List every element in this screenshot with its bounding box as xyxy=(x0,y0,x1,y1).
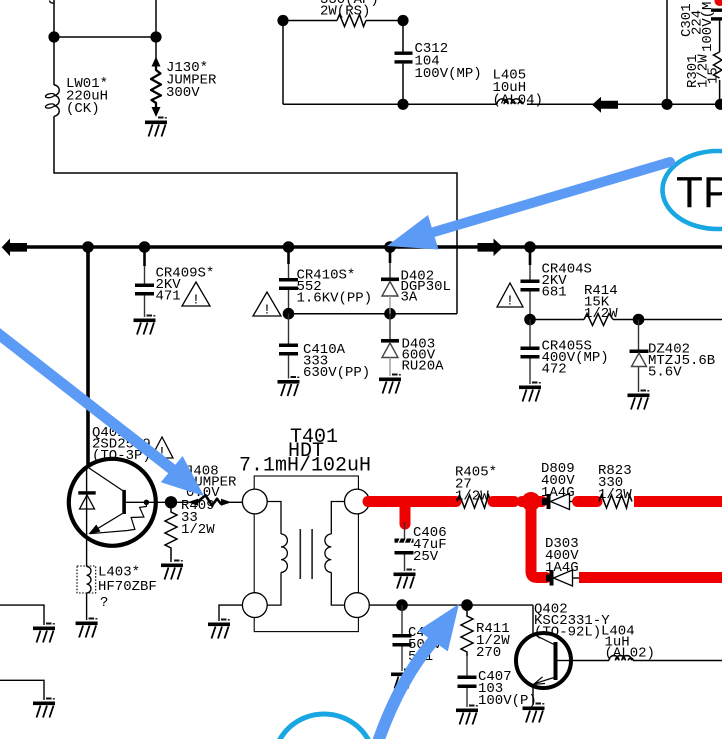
svg-text:!: ! xyxy=(192,293,200,309)
svg-text:RU20A: RU20A xyxy=(402,359,445,375)
svg-text:3A: 3A xyxy=(401,290,418,306)
ground under T401 BL xyxy=(208,619,230,639)
resistor R414 xyxy=(584,314,613,326)
svg-text:100V(MP): 100V(MP) xyxy=(415,66,482,82)
node red top right xyxy=(715,0,722,6)
transformer T401 primary winding xyxy=(267,502,281,535)
jumper J130 xyxy=(152,57,161,67)
node at 156,37 xyxy=(150,31,161,42)
label C312 xyxy=(415,41,482,82)
node 530,319.5 xyxy=(524,314,536,326)
node 402,605.1 xyxy=(396,599,408,611)
label L404 xyxy=(601,624,655,662)
capacitor CR410S xyxy=(287,247,290,264)
capacitor CR409S xyxy=(143,247,146,266)
ground under C405 xyxy=(391,669,413,689)
annotation arrow 3 (curved, to node 467,605) xyxy=(379,604,459,739)
capacitor CR405S xyxy=(529,320,531,347)
red stub to C406 xyxy=(400,502,411,525)
resistor R301 (clipped) xyxy=(714,52,722,78)
svg-text:25V: 25V xyxy=(413,549,439,565)
wire y=313.7 xyxy=(289,313,458,315)
label R823 xyxy=(598,463,632,503)
svg-text:(AL04): (AL04) xyxy=(493,93,543,109)
wire left stub 1 xyxy=(0,605,44,625)
svg-text:471: 471 xyxy=(156,289,181,305)
svg-text:(CK): (CK) xyxy=(66,101,100,117)
svg-text:1/2W: 1/2W xyxy=(584,306,618,322)
label CR410S xyxy=(297,268,373,307)
label CR404S xyxy=(542,262,592,301)
svg-text:681: 681 xyxy=(542,285,567,301)
transformer pin TL xyxy=(242,489,267,514)
label LW01 xyxy=(66,76,108,117)
svg-text:2W(RS): 2W(RS) xyxy=(320,4,370,20)
svg-text:100V(P): 100V(P) xyxy=(478,693,537,709)
ground under L403 xyxy=(76,618,98,638)
label C406 xyxy=(413,525,447,565)
transformer T401 core xyxy=(299,529,301,579)
label D403 xyxy=(402,337,445,375)
label D402 xyxy=(401,269,451,306)
wire right edge xyxy=(719,21,721,105)
node at 283,20.5 xyxy=(277,15,288,26)
red net lower segment xyxy=(579,572,722,583)
flow arrow right on bus xyxy=(478,239,504,257)
node at 54,37 xyxy=(48,31,59,42)
svg-text:(AL02): (AL02) xyxy=(605,646,655,662)
label R301 rotated xyxy=(685,54,722,88)
svg-text:270: 270 xyxy=(476,645,501,661)
diode D809 xyxy=(542,498,549,505)
label J130 xyxy=(166,60,217,101)
ground under R409 xyxy=(161,560,183,580)
inductor LW01 xyxy=(54,85,59,116)
annotation oval TP top right xyxy=(663,151,722,229)
wire L404 to edge xyxy=(633,660,722,662)
ground under CR405S xyxy=(519,382,541,402)
svg-text:7.1mH/102uH: 7.1mH/102uH xyxy=(239,455,371,478)
label L405 xyxy=(493,68,543,109)
capacitor C405 xyxy=(401,605,403,634)
ground under J130 xyxy=(145,117,167,137)
svg-text:15: 15 xyxy=(706,67,722,84)
wire x=403 to C312 xyxy=(402,21,404,52)
label R310 value xyxy=(320,0,379,20)
svg-text:1.6KV(PP): 1.6KV(PP) xyxy=(297,291,373,307)
svg-text:5.6V: 5.6V xyxy=(648,365,682,381)
warning triangle near CR410S xyxy=(253,292,281,319)
wire C312 down xyxy=(402,64,404,105)
annotation arrow 1 (from TP oval to bus) xyxy=(387,162,670,250)
node bus 144.5 xyxy=(139,241,151,253)
svg-text:630V(PP): 630V(PP) xyxy=(303,365,370,381)
capacitor C410A xyxy=(288,314,290,344)
wire horizontal y=37 xyxy=(54,36,156,38)
label R411 xyxy=(476,621,510,661)
node bus 390 xyxy=(384,241,396,253)
wire left stub 2 xyxy=(0,680,44,700)
resistor R310 330(AP) 2W(RS) xyxy=(337,15,366,27)
red net upper segment 3 xyxy=(578,496,598,507)
transformer pin TR xyxy=(345,489,370,514)
svg-text:472: 472 xyxy=(542,362,567,378)
warning triangle near Q401 xyxy=(151,437,173,461)
wire BL pin to ground xyxy=(219,605,242,621)
label J408 xyxy=(185,464,237,502)
transistor Q402 xyxy=(516,633,571,688)
ground stub 2 xyxy=(33,698,55,718)
label C407 xyxy=(478,669,537,709)
label C410A xyxy=(303,342,370,381)
transformer pin BL xyxy=(242,593,267,618)
wire y=20.5 left seg xyxy=(283,20,337,22)
node 467,605.1 xyxy=(461,599,473,611)
warning triangle near CR409S xyxy=(182,282,210,309)
node 638.5,319.5 xyxy=(633,314,645,326)
inductor L405 xyxy=(497,99,523,104)
wire x=156 to jumper xyxy=(155,0,157,58)
annotation arrow 2 (to J408) xyxy=(0,332,204,496)
capacitor C301 (clipped) xyxy=(711,9,722,12)
capacitor CR404S xyxy=(529,247,532,265)
flow arrow left on y=104.3 xyxy=(592,97,618,113)
node bus 530 xyxy=(524,241,536,253)
capacitor C312 xyxy=(395,52,413,55)
svg-text:1A4G: 1A4G xyxy=(545,560,579,576)
label C405 xyxy=(408,625,442,665)
node at 720.5,104.3 xyxy=(715,99,722,110)
wire BR pin row y=605.1 xyxy=(369,604,533,606)
red node and branch down to D303 xyxy=(522,492,541,511)
label L403 xyxy=(98,565,157,612)
svg-text:1A4G: 1A4G xyxy=(541,485,575,501)
flow arrow left end of bus xyxy=(2,239,27,257)
ground under C407 xyxy=(456,705,478,725)
wire left vertical x=54 top xyxy=(53,0,55,85)
svg-text:100V(M: 100V(M xyxy=(700,2,716,52)
svg-text:TP: TP xyxy=(676,168,722,217)
inductor L403 ferrite bead xyxy=(77,566,96,593)
capacitor C406 xyxy=(404,522,406,539)
node at 667,104.3 xyxy=(661,99,672,110)
ground under CR409S xyxy=(134,315,156,335)
diode D303 xyxy=(546,575,551,582)
label Q402 xyxy=(534,602,610,641)
diode D402 xyxy=(389,247,392,263)
wire collector Q402 to L404 xyxy=(571,660,609,662)
label D303 xyxy=(545,536,579,576)
wire y=104.3 xyxy=(283,103,722,105)
svg-text:1/2W: 1/2W xyxy=(598,487,632,503)
label R409 xyxy=(181,498,215,538)
wire x=283 down xyxy=(282,21,284,105)
wire y=319.5 xyxy=(530,319,722,321)
svg-text:!: ! xyxy=(263,303,271,319)
warning triangle near CR404S xyxy=(497,283,523,310)
label R405 xyxy=(455,465,497,505)
wire x=667 xyxy=(666,0,668,104)
red net upper segment 4 xyxy=(634,496,722,507)
resistor R411 xyxy=(461,605,473,656)
node 288.5,313.7 xyxy=(283,308,295,320)
ground under Q402 xyxy=(523,703,545,723)
transformer pin BR xyxy=(345,593,370,618)
node at 403,20.5 xyxy=(397,15,408,26)
ground under C410A xyxy=(278,376,300,396)
svg-text:1/2W: 1/2W xyxy=(455,489,489,505)
ground stub 1 xyxy=(33,623,55,643)
wire thick collector x=88 xyxy=(86,247,90,466)
label T401 xyxy=(239,426,371,478)
jumper J408 xyxy=(177,501,188,503)
label DZ402 xyxy=(648,342,715,381)
svg-text:?: ? xyxy=(100,595,108,611)
label R414 xyxy=(584,283,618,322)
resistor R823 xyxy=(599,495,632,508)
wire left vertical x=54 lower and top rail y=173 xyxy=(54,116,457,314)
node base junction 171,502.3 xyxy=(165,496,177,508)
resistor R405 xyxy=(457,495,491,508)
label CR405S xyxy=(542,339,609,378)
ground under C406 xyxy=(394,569,416,589)
node bus 88 xyxy=(82,241,94,253)
node 390,313.7 xyxy=(384,308,396,320)
label D809 xyxy=(541,461,575,501)
svg-text:300V: 300V xyxy=(166,85,200,101)
clipped coil remnant top edge xyxy=(50,1,55,4)
node bus 288.5 xyxy=(283,241,295,253)
transformer T401 box xyxy=(254,476,358,632)
capacitor C407 xyxy=(466,656,468,676)
wire y=20.5 right seg xyxy=(366,20,403,22)
inductor L404 xyxy=(609,656,633,661)
red net upper segment 1 xyxy=(368,496,456,507)
ground under D403 xyxy=(379,374,401,394)
wire main bus y=247 xyxy=(26,245,722,248)
svg-text:!: ! xyxy=(506,294,514,310)
label Q401 xyxy=(92,425,151,464)
svg-text:1/2W: 1/2W xyxy=(181,522,215,538)
svg-text:HF70ZBF: HF70ZBF xyxy=(98,579,157,595)
diode D403 xyxy=(389,314,391,339)
transformer T401 secondary winding xyxy=(331,502,344,535)
transistor Q401 xyxy=(69,459,156,546)
annotation oval bottom (clipped) xyxy=(274,714,374,739)
zener DZ402 xyxy=(638,320,640,350)
resistor R409 xyxy=(165,502,177,562)
ground under DZ402 xyxy=(628,390,650,410)
label C301 rotated xyxy=(679,2,716,52)
red net upper segment 2 xyxy=(493,496,514,507)
node at 403,104.3 xyxy=(397,99,408,110)
label CR409S xyxy=(156,266,215,305)
svg-text:(TO-92L): (TO-92L) xyxy=(534,625,601,641)
